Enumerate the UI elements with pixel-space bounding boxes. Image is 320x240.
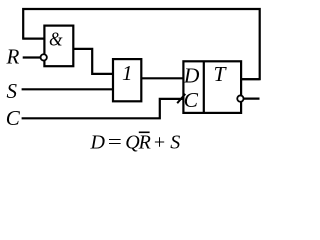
svg-text:R: R [5, 45, 19, 69]
svg-text:R: R [138, 132, 151, 154]
svg-text:D: D [183, 64, 200, 88]
svg-text:D: D [90, 132, 106, 154]
svg-text:S: S [7, 79, 18, 103]
svg-text:C: C [184, 88, 199, 112]
svg-text:T: T [214, 62, 228, 86]
svg-text:+: + [154, 132, 165, 154]
svg-text:S: S [170, 132, 180, 154]
svg-text:1: 1 [122, 61, 133, 85]
svg-text:&: & [49, 28, 63, 51]
svg-text:=: = [108, 131, 122, 153]
svg-text:C: C [6, 106, 21, 130]
